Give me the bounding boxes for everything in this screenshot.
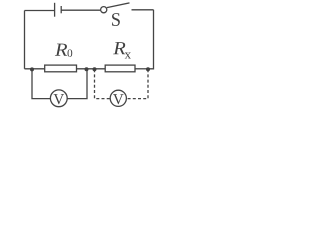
- label Rx main letter R: [113, 42, 125, 54]
- wire: left vertical: [24, 11, 26, 69]
- voltmeter V1 circle: [50, 90, 67, 107]
- wire: R0 to Rx: [77, 68, 106, 70]
- wire: left voltmeter right lead: [67, 69, 87, 98]
- resistor Rx body: [105, 65, 135, 72]
- label Rx subscript x: [125, 53, 131, 59]
- switch S: arm: [107, 3, 130, 8]
- switch S: pivot circle: [101, 7, 107, 13]
- label S (switch): [112, 13, 120, 26]
- wire: right voltmeter right lead (dashed): [126, 69, 148, 98]
- label V in right voltmeter: [113, 94, 123, 104]
- label R0 main letter R: [55, 44, 67, 56]
- node junction dot (right of R0): [85, 67, 89, 71]
- resistor R0 body: [45, 65, 77, 72]
- wire: Rx to corner: [135, 68, 148, 70]
- node junction dot (right of Rx): [146, 67, 150, 71]
- label V in left voltmeter: [54, 94, 64, 104]
- battery: long plate: [54, 3, 56, 17]
- wire: left voltmeter left lead: [32, 69, 51, 98]
- node junction dot (left Rx tap): [93, 67, 97, 71]
- wire: middle left (node to R0): [25, 68, 45, 70]
- label R0 subscript 0: [67, 49, 72, 57]
- wire: battery to switch: [61, 9, 100, 11]
- battery: short plate: [60, 6, 62, 13]
- wire: right voltmeter left lead (dashed): [95, 69, 111, 98]
- wire: switch to top right corner: [132, 9, 154, 11]
- wire: top left segment (corner to battery): [25, 10, 55, 12]
- node junction dot (left of R0): [30, 67, 34, 71]
- wire: right vertical: [148, 10, 154, 69]
- voltmeter V2 circle: [110, 90, 126, 106]
